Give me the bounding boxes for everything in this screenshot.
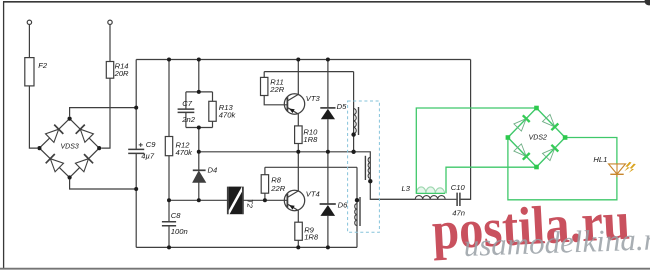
watermark postila.ru bbox=[430, 191, 631, 261]
mid rail bbox=[199, 151, 354, 153]
svg-text:VT4: VT4 bbox=[306, 190, 320, 199]
junction bottom rail / R9 bbox=[296, 245, 300, 249]
diode VDS3 bottom-right bbox=[75, 154, 93, 172]
diode VDS2 TL bbox=[514, 119, 526, 132]
svg-text:D6: D6 bbox=[338, 201, 348, 210]
svg-text:D4: D4 bbox=[208, 166, 218, 175]
svg-text:1R8: 1R8 bbox=[303, 135, 318, 144]
green L3 overlay coil bbox=[417, 187, 445, 193]
phasing dot W1 bbox=[351, 132, 355, 136]
svg-text:VDS2: VDS2 bbox=[529, 135, 547, 142]
svg-text:C10: C10 bbox=[451, 183, 466, 192]
bar VDS2 BL bbox=[523, 153, 530, 160]
svg-text:22R: 22R bbox=[270, 184, 285, 193]
junction top rail / R12 bbox=[167, 58, 171, 62]
svg-text:C7: C7 bbox=[182, 99, 192, 108]
diac T2 bbox=[228, 187, 243, 215]
diode VDS3 top-left bbox=[46, 125, 64, 143]
bridge VDS2 diodes bbox=[514, 114, 555, 160]
resistor R9 1R8 bbox=[295, 222, 303, 240]
junction mid rail / windings bbox=[351, 150, 355, 154]
junction mid rail / VT4 collector bbox=[296, 150, 300, 154]
border left bbox=[3, 2, 5, 269]
node VDS3 left vertex bbox=[37, 146, 41, 150]
capacitor C7 bbox=[178, 109, 195, 112]
resistor R13 470k bbox=[212, 92, 214, 128]
wire green DC plus bbox=[565, 138, 617, 164]
junction top rail / D5 bbox=[326, 58, 330, 62]
resistor R10 1R8 bbox=[295, 126, 303, 144]
diode D6 bbox=[327, 152, 329, 248]
diode D4 bbox=[193, 169, 206, 171]
wire green AC1 bbox=[416, 108, 536, 193]
svg-text:T2: T2 bbox=[246, 199, 255, 209]
corner icon bbox=[645, 0, 650, 5]
border top bbox=[3, 1, 650, 3]
top rail bbox=[136, 59, 470, 61]
wire C7R13 column top bbox=[198, 60, 200, 92]
node VDS3 right vertex bbox=[97, 146, 101, 150]
svg-text:470k: 470k bbox=[219, 110, 237, 119]
svg-text:C8: C8 bbox=[171, 211, 181, 220]
junction C7/R13 top bbox=[197, 90, 201, 94]
svg-text:usamodelkina.ru: usamodelkina.ru bbox=[463, 221, 650, 263]
junction base line / D4 bbox=[197, 198, 201, 202]
junction node DC+ / C9 top bbox=[134, 106, 138, 110]
transformer winding W1 bbox=[353, 72, 355, 152]
junction bottom rail / C8 bbox=[167, 245, 171, 249]
wire R11 to winding1 bbox=[264, 71, 353, 73]
parallel box C7 R13 bbox=[186, 92, 213, 128]
phasing dot W2 bbox=[368, 179, 372, 183]
svg-text:1R8: 1R8 bbox=[304, 232, 319, 241]
svg-text:100n: 100n bbox=[171, 227, 188, 236]
junction top rail / C7 branch bbox=[197, 58, 201, 62]
wire R8 to winding3 bbox=[265, 166, 357, 168]
wire C7 box to mid rail bbox=[198, 128, 200, 170]
wire terminalR to R14 bbox=[109, 25, 111, 62]
wire green AC2 bbox=[446, 167, 537, 193]
dashed transformer box bbox=[348, 101, 380, 232]
capacitor C10 bbox=[457, 193, 460, 206]
inductor L3 bbox=[415, 196, 445, 200]
fuse F2 bbox=[28, 58, 30, 86]
svg-text:470k: 470k bbox=[176, 148, 194, 157]
wire VT4 collector bbox=[297, 152, 299, 191]
junction top rail / VT3 collector bbox=[296, 58, 300, 62]
photon bolts bbox=[624, 162, 636, 173]
core bar W2 bbox=[364, 156, 366, 180]
diode VDS2 TR bbox=[543, 114, 555, 127]
svg-text:C9: C9 bbox=[146, 140, 156, 149]
resistor R12 470k bbox=[165, 137, 172, 156]
bridge VDS2 frame bbox=[508, 108, 565, 167]
right output riser bbox=[461, 60, 471, 200]
resistor R8 22R bbox=[264, 167, 266, 200]
wire green DC minus bbox=[508, 138, 617, 200]
wire R14 to VDS3 right bbox=[102, 78, 111, 148]
winding W2 bbox=[354, 152, 416, 200]
diode VDS2 BR bbox=[543, 148, 555, 161]
svg-text:L3: L3 bbox=[402, 184, 411, 193]
bottom rail bbox=[136, 246, 357, 248]
page bottom rule bbox=[0, 268, 650, 270]
wire VDS3 top to C9 node bbox=[70, 108, 137, 117]
transistor VT4 bbox=[284, 190, 304, 210]
watermark usamodelkina.ru bbox=[463, 221, 650, 263]
capacitor C8 bbox=[168, 200, 170, 247]
LED HL1 bbox=[609, 164, 626, 177]
junction bottom rail / D6 bbox=[326, 245, 330, 249]
svg-text:VT3: VT3 bbox=[306, 94, 321, 103]
junction base line / C8 R12 bbox=[167, 198, 171, 202]
wire VT3 emitter to R10 bbox=[297, 114, 299, 126]
green wires bbox=[416, 108, 617, 200]
bar VDS2 TR bbox=[551, 124, 558, 131]
svg-text:HL1: HL1 bbox=[593, 155, 607, 164]
diode VDS2 BL bbox=[514, 144, 526, 157]
vertex squares VDS2 bbox=[506, 106, 568, 170]
wire R12 column bbox=[168, 60, 170, 201]
plus sign C9 bbox=[139, 143, 143, 147]
svg-text:20R: 20R bbox=[114, 69, 129, 78]
core bar W3 bbox=[359, 197, 361, 226]
wire DC plus riser / C9 column bbox=[135, 60, 137, 248]
svg-text:2n2: 2n2 bbox=[181, 115, 195, 124]
svg-text:22R: 22R bbox=[269, 85, 284, 94]
wire VT3 collector bbox=[297, 60, 299, 95]
diode VDS3 top-right bbox=[76, 125, 94, 143]
terminal input R bbox=[108, 20, 112, 24]
svg-text:D5: D5 bbox=[337, 102, 347, 111]
svg-text:VDS3: VDS3 bbox=[61, 143, 79, 150]
winding W3 bbox=[356, 167, 358, 247]
diode VDS3 bottom-left bbox=[46, 154, 64, 172]
phasing dot W3 bbox=[355, 198, 359, 202]
junction C7/R13 bottom bbox=[197, 126, 201, 130]
wire F2 to VDS3 left bbox=[29, 86, 37, 148]
wire VDS3 bottom to C9 node bbox=[70, 180, 137, 189]
node VDS3 bottom vertex bbox=[68, 175, 72, 179]
node VDS3 top vertex bbox=[68, 117, 72, 121]
base line / diac line bbox=[169, 199, 287, 201]
bar VDS2 TL bbox=[523, 115, 530, 122]
core bar W1 bbox=[358, 107, 360, 135]
junction node DC- / C9 bottom bbox=[134, 187, 138, 191]
resistor R11 22R bbox=[264, 72, 287, 105]
diode D5 bbox=[327, 60, 329, 152]
bridge VDS3 frame bbox=[39, 119, 99, 178]
terminal input L bbox=[27, 20, 31, 24]
svg-text:4µ7: 4µ7 bbox=[141, 152, 155, 161]
resistor R14 20R bbox=[106, 62, 113, 79]
junction mid rail / D6 bbox=[326, 150, 330, 154]
transistor VT3 bbox=[284, 94, 304, 114]
svg-text:F2: F2 bbox=[38, 61, 48, 70]
capacitor C9 plates bbox=[128, 149, 144, 153]
wire terminalL to F2 bbox=[28, 25, 30, 58]
bar VDS2 BR bbox=[551, 145, 558, 152]
junction base line / R8 bbox=[263, 198, 267, 202]
wire VT4 emitter to R9 bbox=[297, 211, 299, 223]
junction mid rail / D4 branch bbox=[197, 150, 201, 154]
